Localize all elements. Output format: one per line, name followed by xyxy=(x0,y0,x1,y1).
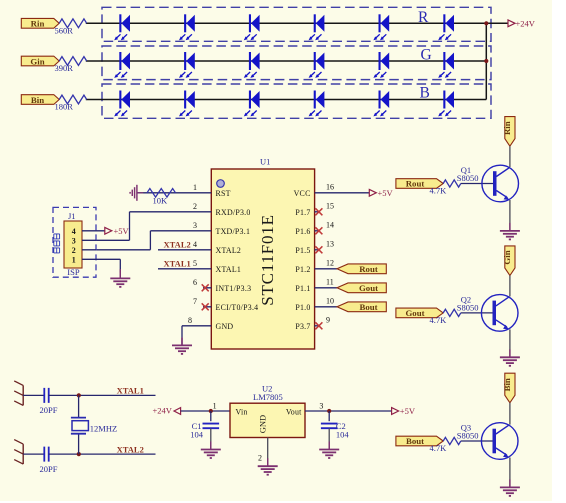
svg-text:104: 104 xyxy=(190,430,204,440)
svg-text:10: 10 xyxy=(326,297,334,306)
svg-text:7: 7 xyxy=(193,297,197,306)
svg-text:+5V: +5V xyxy=(400,406,416,416)
svg-text:STC11F01E: STC11F01E xyxy=(258,214,277,306)
svg-text:XTAL2: XTAL2 xyxy=(117,444,144,454)
svg-text:RXD/P3.0: RXD/P3.0 xyxy=(216,208,251,217)
svg-text:XTAL2: XTAL2 xyxy=(216,246,242,255)
svg-text:4.7K: 4.7K xyxy=(430,315,448,325)
svg-text:4.7K: 4.7K xyxy=(430,185,448,195)
svg-text:+24V: +24V xyxy=(153,405,173,415)
svg-text:XTAL1: XTAL1 xyxy=(164,259,191,269)
svg-text:9: 9 xyxy=(326,316,330,325)
svg-text:LM7805: LM7805 xyxy=(253,392,283,402)
svg-text:Vout: Vout xyxy=(286,407,302,416)
svg-text:P1.5: P1.5 xyxy=(295,246,310,255)
svg-text:1: 1 xyxy=(72,256,76,265)
svg-text:20PF: 20PF xyxy=(40,464,58,474)
svg-text:R: R xyxy=(418,9,429,26)
svg-text:Bin: Bin xyxy=(31,95,44,105)
svg-text:390R: 390R xyxy=(55,63,74,73)
svg-text:Bout: Bout xyxy=(359,302,377,312)
svg-text:15: 15 xyxy=(326,202,334,211)
svg-text:XTAL1: XTAL1 xyxy=(216,265,242,274)
svg-text:TXD/P3.1: TXD/P3.1 xyxy=(216,227,251,236)
svg-text:XTAL1: XTAL1 xyxy=(117,386,144,396)
svg-text:+5V: +5V xyxy=(114,226,130,236)
svg-text:P1.2: P1.2 xyxy=(295,265,310,274)
svg-text:S8050: S8050 xyxy=(457,302,479,312)
svg-text:ISP: ISP xyxy=(67,267,80,277)
svg-text:13: 13 xyxy=(326,240,334,249)
svg-text:P1.6: P1.6 xyxy=(295,227,310,236)
svg-text:Bin: Bin xyxy=(502,378,512,391)
svg-text:Rout: Rout xyxy=(359,264,378,274)
svg-text:16: 16 xyxy=(326,183,334,192)
svg-text:P3.7: P3.7 xyxy=(295,322,310,331)
svg-text:P1.0: P1.0 xyxy=(295,303,310,312)
svg-text:XTAL2: XTAL2 xyxy=(164,240,191,250)
svg-text:G: G xyxy=(421,46,432,63)
svg-text:1: 1 xyxy=(213,402,217,411)
svg-text:INT1/P3.3: INT1/P3.3 xyxy=(216,284,252,293)
svg-text:Gout: Gout xyxy=(405,308,424,318)
svg-text:S8050: S8050 xyxy=(457,173,479,183)
svg-text:VCC: VCC xyxy=(294,189,311,198)
svg-text:180R: 180R xyxy=(55,101,74,111)
svg-text:4.7K: 4.7K xyxy=(430,443,448,453)
svg-text:Bout: Bout xyxy=(406,436,424,446)
svg-text:10K: 10K xyxy=(153,196,169,206)
svg-text:2: 2 xyxy=(258,453,262,462)
svg-text:560R: 560R xyxy=(55,25,74,35)
svg-text:2: 2 xyxy=(72,246,76,255)
svg-text:Vin: Vin xyxy=(236,407,248,416)
svg-text:4: 4 xyxy=(72,227,76,236)
svg-text:Rin: Rin xyxy=(502,121,512,135)
svg-text:+5V: +5V xyxy=(378,188,394,198)
svg-text:12: 12 xyxy=(326,259,334,268)
svg-text:14: 14 xyxy=(326,221,334,230)
svg-text:Rin: Rin xyxy=(31,19,45,29)
svg-text:4: 4 xyxy=(193,240,197,249)
svg-text:RST: RST xyxy=(216,189,231,198)
svg-text:8: 8 xyxy=(188,316,192,325)
svg-text:Rout: Rout xyxy=(406,179,425,189)
svg-text:U1: U1 xyxy=(260,156,270,166)
svg-text:S8050: S8050 xyxy=(457,430,479,440)
svg-text:2: 2 xyxy=(193,202,197,211)
svg-text:GND: GND xyxy=(257,415,267,433)
svg-text:3: 3 xyxy=(72,237,76,246)
svg-text:P1.7: P1.7 xyxy=(295,208,310,217)
svg-text:1: 1 xyxy=(193,183,197,192)
svg-text:GND: GND xyxy=(216,322,234,331)
svg-text:12MHZ: 12MHZ xyxy=(90,423,117,433)
svg-text:J1: J1 xyxy=(68,211,76,221)
svg-text:B: B xyxy=(420,84,430,101)
svg-text:3: 3 xyxy=(319,402,323,411)
svg-text:+24V: +24V xyxy=(516,19,536,29)
svg-text:ECI/T0/P3.4: ECI/T0/P3.4 xyxy=(216,303,259,312)
svg-text:5: 5 xyxy=(193,259,197,268)
svg-text:6: 6 xyxy=(193,278,197,287)
svg-text:P1.1: P1.1 xyxy=(295,284,310,293)
svg-text:104: 104 xyxy=(336,430,350,440)
svg-text:Gin: Gin xyxy=(502,250,512,264)
svg-text:11: 11 xyxy=(326,278,334,287)
svg-text:20PF: 20PF xyxy=(40,405,58,415)
svg-text:Gout: Gout xyxy=(359,283,378,293)
svg-text:3: 3 xyxy=(193,221,197,230)
svg-text:Gin: Gin xyxy=(30,56,44,66)
